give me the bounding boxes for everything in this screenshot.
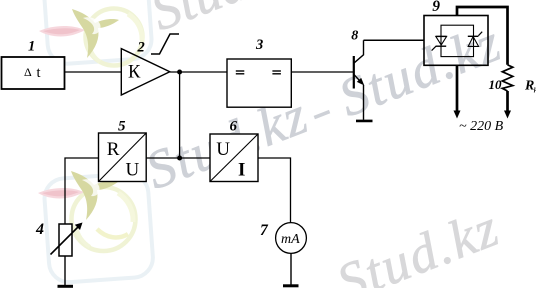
svg-text:3: 3	[255, 37, 263, 53]
block 5 (R/U converter)	[99, 133, 147, 182]
transistor Q8 base bar	[353, 56, 355, 89]
ground (emitter)	[356, 120, 373, 123]
svg-text:Δ: Δ	[24, 65, 32, 79]
ground (resistor 4)	[58, 285, 74, 288]
wire mA meter to ground	[290, 253, 292, 285]
block 1 (delta-t sensor)	[2, 57, 65, 89]
variable resistor 4	[59, 224, 72, 256]
wire box9 bottom down with arrow	[456, 65, 459, 112]
svg-text:6: 6	[230, 118, 238, 134]
resistor R10 zigzag	[502, 65, 513, 91]
wire block3 to transistor base	[291, 71, 354, 73]
wire emitter down	[363, 85, 365, 120]
svg-text:t: t	[37, 65, 41, 81]
svg-text:10: 10	[489, 77, 503, 92]
amplifier K (2)	[121, 49, 170, 95]
inner rect	[441, 25, 474, 56]
ground (mA meter)	[283, 284, 299, 287]
wire block5 left to resistor 4	[65, 158, 99, 224]
svg-text:К: К	[128, 62, 141, 82]
wire collector to box9	[364, 39, 425, 41]
watermark logo center-left	[38, 171, 154, 283]
step-signal icon	[151, 34, 179, 54]
svg-text:1: 1	[28, 39, 35, 55]
svg-text:R: R	[107, 139, 120, 160]
equals marks	[236, 70, 245, 72]
svg-text:~ 220 В: ~ 220 В	[459, 119, 504, 134]
watermark logo top-left	[39, 0, 153, 66]
svg-text:5: 5	[118, 119, 126, 135]
svg-text:8: 8	[351, 28, 358, 43]
transistor collector	[354, 40, 364, 63]
thick wire box9 top to resistor	[457, 7, 508, 65]
svg-text:U: U	[216, 139, 230, 160]
svg-text:4: 4	[35, 221, 44, 238]
wire block1 to amplifier	[65, 71, 122, 73]
wire amplifier to block3	[170, 71, 227, 73]
block 6 (U/I converter)	[210, 134, 258, 182]
node A junction dot	[177, 70, 182, 75]
wire block5 to block6	[146, 157, 210, 159]
svg-text:mA: mA	[281, 232, 300, 247]
wire block6 to mA meter	[258, 158, 291, 223]
box 9 thyristor module outer	[424, 16, 488, 66]
watermark center dash	[314, 112, 329, 118]
svg-text:9: 9	[432, 0, 440, 15]
svg-text:I: I	[238, 159, 245, 180]
thyristor VS2 (right)	[468, 32, 482, 47]
wire node A down to node B	[179, 72, 181, 158]
block 3 (converter = =)	[227, 59, 291, 107]
svg-text:7: 7	[260, 222, 269, 239]
svg-text:2: 2	[137, 39, 145, 55]
node B junction dot	[177, 156, 182, 161]
thyristor VS1 (left)	[432, 36, 447, 50]
wire resistor4 to ground	[64, 256, 66, 286]
transistor emitter with arrow	[354, 74, 362, 83]
svg-text:U: U	[126, 160, 140, 181]
wire resistor down with arrow	[506, 91, 509, 112]
mA meter (7)	[276, 223, 307, 254]
